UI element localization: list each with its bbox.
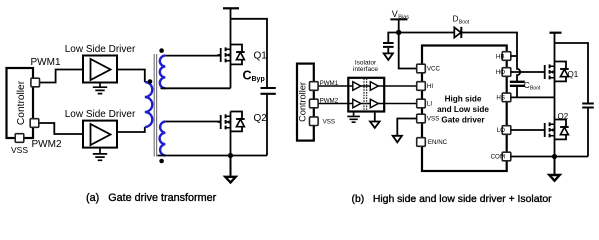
- transistor Q1: [218, 45, 245, 66]
- secondary 2 phase dot: [159, 159, 164, 164]
- wire Cboot to HS: [516, 86, 518, 97]
- svg-text:Boot: Boot: [530, 86, 541, 92]
- svg-text:Low Side Driver: Low Side Driver: [65, 109, 136, 120]
- node Vbias: [396, 30, 401, 35]
- svg-text:Controller: Controller: [297, 82, 307, 122]
- svg-text:HI: HI: [427, 83, 433, 90]
- svg-text:Byp: Byp: [252, 76, 265, 83]
- buffer iso right row1: [370, 82, 378, 91]
- wire secondary1 top to Q1 gate: [165, 55, 220, 57]
- transistor Q1b: [542, 62, 569, 83]
- wire LO to Q2b gate: [511, 129, 542, 131]
- pin COM: [502, 152, 511, 161]
- wire VSS to ground: [397, 119, 417, 136]
- svg-text:Q2: Q2: [254, 113, 268, 124]
- svg-text:PWM2: PWM2: [32, 139, 62, 150]
- wire supply column b: [554, 33, 556, 62]
- ground a: [225, 156, 235, 183]
- svg-text:Gate driver: Gate driver: [441, 115, 485, 124]
- ground isolator left: [347, 112, 360, 123]
- ground b: [554, 157, 556, 176]
- wire Q2b source to rail: [554, 139, 556, 156]
- transformer T1 primary winding: [145, 82, 153, 127]
- transformer core: [154, 54, 155, 157]
- svg-text:COM: COM: [491, 154, 505, 161]
- diode Dboot: [454, 27, 461, 37]
- svg-text:HS: HS: [496, 95, 505, 102]
- capacitor Vbias bypass: [383, 43, 394, 47]
- ground Vbias arrow: [384, 53, 393, 60]
- wire Q1b source to Q2b drain: [554, 81, 556, 119]
- svg-text:High side: High side: [445, 95, 482, 104]
- pin PWM2b: [310, 99, 319, 108]
- node junction b: [552, 154, 557, 159]
- pin VCC: [417, 64, 426, 73]
- svg-text:and Low side: and Low side: [437, 105, 489, 114]
- transistor Q2: [218, 112, 245, 133]
- wire isolator row1: [348, 85, 384, 87]
- wire PWM1b to isolator: [318, 85, 348, 87]
- controller U_b: [297, 64, 314, 141]
- pin EN/NC: [417, 138, 426, 147]
- svg-text:HB: HB: [496, 53, 505, 60]
- primary phase dot: [148, 79, 153, 84]
- node junction a: [228, 153, 233, 158]
- wire bus cap to rail: [587, 109, 589, 157]
- svg-text:(b) High side and low side d: (b) High side and low side driver + Isol…: [352, 194, 553, 205]
- wire supply column a: [230, 8, 232, 44]
- svg-text:Q1: Q1: [254, 51, 268, 62]
- ground driver1: [93, 83, 107, 94]
- svg-text:VSS: VSS: [11, 145, 28, 155]
- pin VSSb: [310, 117, 319, 126]
- low side driver 1 box: [83, 56, 117, 83]
- capacitor CByp: [261, 88, 276, 94]
- wire HS to midpoint: [511, 96, 555, 98]
- svg-text:PWM2: PWM2: [320, 97, 339, 104]
- controller U_a: [7, 68, 34, 138]
- buffer triangle driver1: [91, 59, 111, 80]
- svg-text:LO: LO: [497, 127, 505, 134]
- wire secondary1 bottom to Q1 source: [161, 64, 231, 88]
- wire HO to Q1b gate: [511, 71, 542, 73]
- pin PWM2: [30, 119, 39, 128]
- wire COM to rail: [511, 156, 588, 158]
- supply bar Vbias: [390, 18, 407, 20]
- ground VSS arrow: [393, 136, 402, 143]
- gate driver IC box: [422, 46, 507, 172]
- svg-text:HO: HO: [496, 69, 505, 76]
- wire PWM2 to driver2: [39, 123, 84, 134]
- svg-text:V: V: [392, 9, 398, 19]
- svg-text:(a) Gate drive transformer: (a) Gate drive transformer: [86, 192, 217, 204]
- wire isolator row2: [348, 103, 384, 105]
- capacitor Cboot: [510, 82, 525, 86]
- wire HB to boot node: [511, 55, 517, 57]
- wire driver2 output to transformer primary bottom: [117, 127, 145, 132]
- pin PWM1b: [310, 82, 319, 91]
- svg-text:Q1: Q1: [568, 70, 579, 79]
- wire Vbias branch to cap: [388, 33, 398, 43]
- buffer triangle driver2: [91, 124, 111, 145]
- transistor Q2b: [542, 120, 569, 141]
- supply bar a: [223, 7, 239, 9]
- svg-text:VSS: VSS: [323, 119, 335, 126]
- svg-text:C: C: [524, 80, 530, 90]
- svg-text:interface: interface: [353, 66, 378, 73]
- wire PWM1 to driver1: [40, 70, 84, 83]
- wire bottom rail a: [158, 155, 268, 157]
- wire Q2 source to rail: [230, 131, 232, 155]
- transformer T1 secondary winding 1: [160, 56, 165, 89]
- pin VSS: [417, 114, 426, 123]
- supply bar b: [550, 32, 562, 34]
- svg-text:Controller: Controller: [16, 80, 27, 125]
- svg-text:PWM1: PWM1: [320, 80, 339, 87]
- wire driver1 output to transformer primary top: [117, 70, 145, 83]
- wire supply branch to bus cap: [555, 43, 589, 103]
- svg-text:D: D: [453, 14, 459, 23]
- wire cap to ground: [387, 48, 389, 53]
- svg-text:LI: LI: [427, 101, 432, 108]
- pin HO: [502, 68, 511, 77]
- capacitor bus b: [582, 104, 594, 108]
- svg-text:VSS: VSS: [427, 116, 439, 123]
- pin VSS: [15, 134, 24, 143]
- pin LI: [417, 99, 426, 108]
- pin HB: [502, 52, 511, 61]
- ground driver2: [93, 148, 107, 161]
- pin LO: [502, 126, 511, 135]
- isolator interface box: [348, 78, 384, 112]
- svg-text:PWM1: PWM1: [31, 57, 61, 68]
- svg-text:Low Side Driver: Low Side Driver: [65, 44, 136, 55]
- buffer iso left row1: [353, 82, 361, 91]
- wire VCC feed: [399, 33, 417, 69]
- isolation barrier dashed: [364, 79, 367, 111]
- wire CByp bottom to rail: [266, 95, 268, 156]
- secondary 1 phase dot: [159, 48, 164, 53]
- transformer T1 secondary winding 2: [160, 122, 166, 156]
- wire boot node down with hop over HO: [517, 56, 520, 81]
- svg-text:VCC: VCC: [427, 66, 441, 73]
- svg-text:EN/NC: EN/NC: [428, 139, 448, 146]
- wire Vbias stem: [398, 19, 400, 32]
- svg-text:C: C: [243, 68, 252, 82]
- buffer iso right row2: [370, 99, 378, 108]
- pin PWM1: [31, 78, 40, 87]
- wire isolator to LI: [384, 103, 417, 105]
- wire secondary2 top to Q2 gate: [165, 121, 220, 123]
- wire supply branch to CByp: [231, 19, 268, 87]
- wire PWM2b to isolator: [318, 103, 348, 105]
- pin HI: [417, 82, 426, 91]
- pin HS: [502, 93, 511, 102]
- low side driver 2 box: [83, 121, 117, 148]
- wire isolator to HI: [384, 85, 417, 87]
- buffer iso left row2: [353, 99, 361, 108]
- svg-text:Q2: Q2: [558, 112, 569, 121]
- wire Vbias rail to Dboot: [399, 32, 455, 34]
- ground isolator right arrow: [370, 112, 380, 128]
- svg-text:Boot: Boot: [459, 19, 470, 25]
- wire Dboot to HB node: [461, 33, 517, 57]
